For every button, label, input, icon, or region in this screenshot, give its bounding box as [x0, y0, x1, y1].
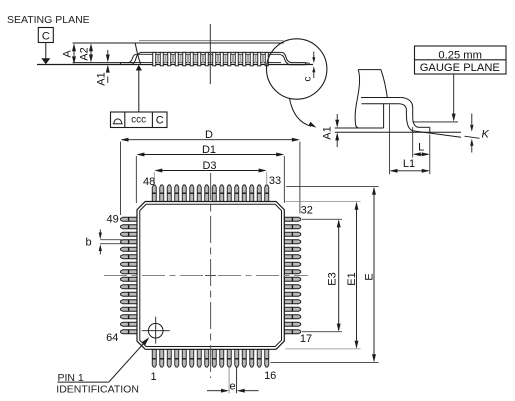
svg-text:D1: D1 [202, 144, 216, 156]
svg-text:16: 16 [264, 370, 276, 382]
svg-text:GAUGE PLANE: GAUGE PLANE [420, 62, 500, 74]
svg-text:E3: E3 [326, 272, 338, 285]
svg-text:ccc: ccc [131, 115, 146, 126]
svg-text:b: b [85, 237, 91, 249]
svg-text:17: 17 [300, 333, 312, 345]
svg-text:1: 1 [151, 371, 157, 383]
svg-text:A: A [62, 50, 74, 58]
svg-text:L: L [418, 142, 424, 154]
svg-text:e: e [230, 381, 236, 393]
svg-text:SEATING PLANE: SEATING PLANE [7, 14, 90, 26]
svg-text:C: C [42, 31, 50, 43]
svg-text:A2: A2 [79, 47, 91, 60]
svg-text:32: 32 [301, 205, 313, 217]
svg-text:PIN 1: PIN 1 [58, 372, 84, 384]
svg-text:64: 64 [106, 332, 118, 344]
svg-text:C: C [156, 115, 164, 127]
svg-text:D: D [205, 129, 213, 141]
svg-text:c: c [302, 77, 313, 82]
svg-text:L1: L1 [403, 158, 415, 170]
svg-text:E: E [364, 273, 376, 280]
svg-text:49: 49 [107, 214, 119, 226]
svg-text:A1: A1 [322, 126, 334, 139]
svg-text:48: 48 [143, 176, 155, 188]
svg-text:D3: D3 [202, 160, 216, 172]
svg-text:E1: E1 [346, 272, 358, 285]
svg-text:K: K [482, 129, 490, 141]
svg-text:A1: A1 [96, 72, 108, 85]
svg-text:IDENTIFICATION: IDENTIFICATION [56, 383, 139, 395]
svg-text:0.25 mm: 0.25 mm [438, 50, 482, 62]
svg-text:33: 33 [269, 175, 281, 187]
